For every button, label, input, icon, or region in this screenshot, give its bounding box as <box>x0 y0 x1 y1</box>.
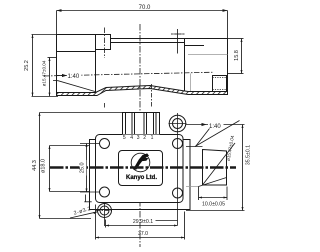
bottom view: connector <box>123 113 160 135</box>
thick section centerline <box>50 166 236 169</box>
short dash above left hole column <box>104 103 106 108</box>
svg-text:ø18.0: ø18.0 <box>41 159 47 173</box>
top view: port with threads <box>213 76 227 92</box>
detail leader V lines <box>195 121 240 147</box>
1:40 leader diagonal <box>53 81 95 92</box>
top view: bore axis centerline <box>44 72 214 76</box>
top view: block A (left body) <box>57 35 96 93</box>
svg-text:70.0: 70.0 <box>139 5 151 11</box>
boss centerline <box>104 28 106 59</box>
svg-text:5: 5 <box>123 135 126 141</box>
dimension 25.0 <box>80 144 99 193</box>
svg-text:1: 1 <box>151 135 154 141</box>
logo bird <box>133 153 149 169</box>
ext line to wedge top <box>186 146 203 148</box>
dimension 70.0 line with arrows <box>57 9 228 12</box>
flange hole top-right <box>173 139 183 149</box>
svg-text:1:40: 1:40 <box>209 124 221 130</box>
bottom view: body rounded rect <box>96 135 184 203</box>
svg-text:4: 4 <box>130 135 133 141</box>
dimension 25.2 <box>32 35 57 97</box>
svg-text:10.0±0.05: 10.0±0.05 <box>202 201 225 207</box>
vertical line through right holes to 29.9 dim <box>177 113 179 226</box>
dimension 44.3 <box>39 113 123 219</box>
top view: tube bar <box>111 39 185 43</box>
svg-text:3: 3 <box>137 135 140 141</box>
small ext corner left of plate <box>84 195 91 203</box>
svg-text:1:40: 1:40 <box>68 74 80 80</box>
svg-text:ø15.47±0.04: ø15.47±0.04 <box>41 60 46 86</box>
extension line left of 70.0 <box>56 11 58 35</box>
svg-text:25.2: 25.2 <box>24 60 30 71</box>
top view: boss B (square boss) <box>96 35 111 50</box>
flange hole bottom-right <box>173 188 183 198</box>
top view: hidden edge under right block <box>190 74 192 95</box>
extension line right of 70.0 down to right block <box>227 11 229 39</box>
svg-text:2: 2 <box>143 135 146 141</box>
flange hole top-left <box>100 139 110 149</box>
dimension 37.0 <box>96 205 185 240</box>
svg-text:25.0: 25.0 <box>79 162 85 173</box>
top view: tapered base plate (hatched) <box>57 86 228 96</box>
wedge box <box>199 143 236 187</box>
svg-text:15.8: 15.8 <box>234 50 240 61</box>
dimension 29.9±0.1 <box>106 220 178 228</box>
svg-text:44.3: 44.3 <box>32 160 38 171</box>
pin labels 5 4 3 2 1 <box>123 135 154 141</box>
logo circle <box>131 153 150 172</box>
short center dash near plate band <box>151 84 153 108</box>
1:40 text (top view) <box>67 72 82 79</box>
dimension ø18.0 <box>49 146 90 192</box>
top view: right block <box>185 39 228 92</box>
svg-text:35.5±0.1: 35.5±0.1 <box>246 145 252 165</box>
svg-text:Kanyo Ltd.: Kanyo Ltd. <box>126 175 157 181</box>
label plate rounded rect <box>119 151 163 186</box>
flange hole bottom-left <box>100 187 110 197</box>
dimension ø15.47±0.04 (top view) <box>32 58 59 97</box>
dimension 10.0±0.05 <box>199 187 228 201</box>
top view 1:40 slope marker <box>57 74 68 77</box>
dimension 15.8 <box>228 39 244 74</box>
right detail: 1:40 taper arrow line <box>186 121 245 129</box>
2-ø3.2 label with leader <box>70 206 97 218</box>
svg-text:29.9±0.1: 29.9±0.1 <box>133 219 153 225</box>
stud hole bottom-left 2-ø3.2 <box>96 204 114 218</box>
top view: hole cross mark on bar <box>171 29 185 54</box>
vertical line through bottom-left stud <box>104 203 106 227</box>
ext line to wedge bottom <box>186 186 199 188</box>
dimension 35.5±0.1 <box>186 125 245 211</box>
bottom view: base plate rect <box>90 140 191 210</box>
svg-text:37.0: 37.0 <box>138 231 148 237</box>
stud hole top-right 2-ø3.2 <box>169 115 187 132</box>
main vertical centerline <box>139 24 141 247</box>
seam under connector <box>123 134 160 136</box>
25.0 text <box>80 160 87 176</box>
